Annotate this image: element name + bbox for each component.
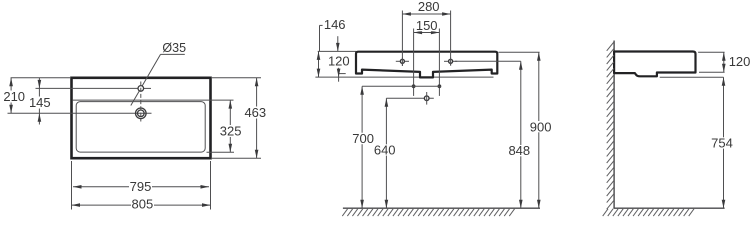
dim 325 line: [207, 151, 235, 153]
svg-text:145: 145: [29, 95, 51, 110]
wall line: [613, 41, 615, 209]
svg-text:Ø35: Ø35: [162, 41, 186, 55]
svg-text:700: 700: [352, 131, 374, 146]
dim 754 line: [723, 77, 725, 208]
svg-text:120: 120: [328, 54, 350, 69]
label 848: [508, 145, 531, 156]
svg-text:754: 754: [711, 136, 733, 151]
basin front outline: [356, 52, 497, 78]
floor hatching middle: [342, 209, 514, 216]
wall hatching: [607, 42, 614, 209]
dim 848 line: [520, 61, 522, 208]
svg-text:900: 900: [530, 119, 552, 134]
basin side profile: [614, 52, 695, 77]
label 795: [129, 181, 152, 193]
svg-text:325: 325: [220, 123, 242, 138]
basin inner rounded rect: [76, 102, 205, 153]
label 754: [711, 137, 734, 148]
tap hole ticks: [396, 60, 409, 62]
bottom extension verticals: [71, 161, 73, 210]
dim 150 line: [414, 32, 440, 34]
extension from top-left to 146/120: [318, 50, 356, 52]
svg-text:280: 280: [418, 0, 440, 14]
svg-text:210: 210: [3, 89, 25, 104]
faucet centerline: [36, 87, 138, 89]
deck outer rectangle: [72, 78, 211, 158]
floor line: [343, 207, 540, 209]
label 146: [323, 19, 347, 30]
top extension to 900: [499, 51, 540, 53]
dim 120 extensions: [698, 51, 725, 53]
label 900: [529, 121, 553, 132]
label 700: [352, 133, 375, 145]
underside rear line: [315, 76, 493, 78]
svg-text:848: 848: [508, 143, 530, 158]
label 120: [327, 56, 351, 68]
drain centerline: [8, 112, 152, 114]
junction dots: [412, 84, 416, 88]
640 jog line: [386, 97, 433, 99]
label 145: [29, 97, 52, 109]
underside extension for 754: [660, 76, 724, 78]
700 jog line: [362, 85, 441, 87]
dim 463 line: [256, 78, 258, 158]
faucet hole: [138, 86, 144, 92]
label 463: [245, 107, 267, 119]
dim 145 line: [38, 88, 40, 113]
dim 120 line: [318, 51, 320, 77]
dim 640 line: [385, 98, 387, 208]
floor hatching right: [603, 209, 694, 216]
dim 805 line: [72, 204, 211, 206]
label 640: [373, 144, 396, 155]
small tick and arrow: [339, 73, 346, 75]
dim 463 extensions: [212, 77, 261, 79]
hole-height extension to 848: [455, 60, 521, 62]
label 325: [220, 125, 242, 137]
svg-text:120: 120: [729, 54, 750, 69]
label 210: [2, 91, 27, 103]
svg-text:463: 463: [244, 105, 266, 120]
dim 210 line: [10, 78, 12, 114]
svg-text:150: 150: [416, 18, 438, 33]
label 150: [415, 20, 438, 32]
leader line: [131, 91, 140, 106]
tap holes: [400, 59, 404, 63]
deck line: [73, 99, 234, 101]
drain mark cross: [424, 96, 429, 101]
svg-text:640: 640: [374, 142, 396, 157]
dim 146 arrow: [337, 36, 339, 51]
dim 146 bracket: [320, 24, 328, 26]
dim 120 line: [723, 52, 725, 72]
280 extension verticals: [401, 11, 403, 67]
dim 700 line: [361, 86, 363, 208]
dim 795 line: [73, 186, 209, 188]
drain hole: [136, 108, 147, 119]
dim 210 extension top: [11, 77, 71, 79]
label 805: [131, 199, 154, 211]
floor line: [613, 207, 724, 209]
150 extension verticals: [413, 29, 415, 96]
svg-text:805: 805: [132, 196, 154, 211]
svg-text:795: 795: [130, 179, 152, 194]
dim 280 line: [402, 13, 450, 15]
label 280: [417, 1, 441, 12]
vertical dashed centerline: [140, 82, 142, 122]
dim 900 line: [538, 52, 540, 208]
svg-text:146: 146: [324, 17, 346, 32]
